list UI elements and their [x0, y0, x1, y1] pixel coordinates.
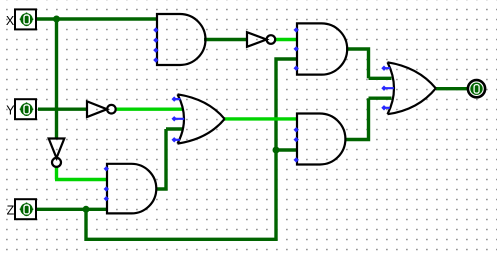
svg-text:Y: Y [6, 104, 15, 118]
svg-text:X: X [6, 14, 15, 28]
svg-text:Z: Z [7, 204, 15, 218]
